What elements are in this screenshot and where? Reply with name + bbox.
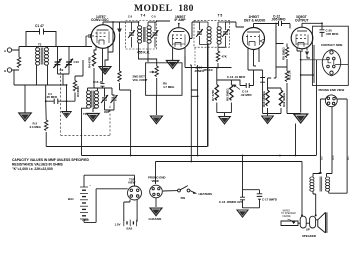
wire T4 leads — [132, 22, 156, 48]
svg-text:.005 MFD.: .005 MFD. — [326, 32, 340, 36]
ground T3 — [87, 114, 99, 122]
resistor R8 2MEG pot — [230, 85, 233, 101]
speaker horn — [316, 212, 327, 233]
svg-text:C-13 .01 MFD: C-13 .01 MFD — [227, 75, 245, 79]
svg-text:IF AMP: IF AMP — [175, 18, 187, 22]
svg-text:R9 1MEG: R9 1MEG — [282, 47, 286, 60]
ground chassis — [150, 208, 162, 216]
svg-text:C-16 .05MFD 3VC: C-16 .05MFD 3VC — [219, 200, 244, 204]
junction dots c4 — [45, 84, 68, 102]
transformer T2 primary — [36, 48, 40, 66]
svg-text:BLU: BLU — [348, 155, 350, 160]
resistor R11 3MEG — [279, 90, 282, 106]
T4 coil primary — [138, 26, 142, 44]
junction dot R12 — [295, 155, 297, 157]
wire mid cap loop — [191, 90, 197, 96]
wire plug bottom pin down — [327, 107, 333, 177]
T6 core — [320, 177, 322, 192]
transformer T2 secondary — [44, 48, 48, 66]
tube V1 14TE7 CONV OSC — [91, 25, 115, 49]
ground c4 — [62, 112, 72, 118]
battery BA2 — [124, 220, 137, 227]
svg-text:CHASSIS: CHASSIS — [149, 217, 162, 221]
volume control box — [146, 63, 182, 96]
wire rail Q — [82, 155, 317, 157]
wire under tube3 — [231, 26, 276, 114]
wire heaters — [163, 191, 194, 193]
capacitor C17 8MFD — [257, 194, 263, 199]
wire volume top — [139, 56, 157, 66]
wire tuning caps — [58, 47, 70, 86]
potentiometer R6 4.7MEG — [155, 66, 158, 77]
wire R12 bottom — [276, 67, 301, 156]
arrow heaters — [193, 191, 197, 194]
svg-text:−: − — [90, 184, 92, 188]
wire T2 leads — [37, 47, 48, 86]
svg-text:R10 10MEG: R10 10MEG — [262, 90, 266, 107]
resistor R5 — [118, 71, 121, 82]
svg-text:T6: T6 — [319, 171, 323, 175]
svg-text:R12 2K: R12 2K — [288, 69, 292, 80]
resistor 47K — [216, 51, 219, 62]
wire tube1 grid cap left — [86, 34, 94, 47]
svg-text:SP: SP — [306, 228, 310, 232]
variable capacitor C18 — [111, 95, 118, 103]
svg-text:C-17 8MFD: C-17 8MFD — [262, 197, 277, 201]
speaker magnet — [281, 221, 298, 226]
capacitor C1 47 — [26, 29, 56, 47]
arrow frame — [288, 219, 296, 224]
junction dots speaker — [301, 214, 317, 216]
ground C17 — [237, 210, 248, 217]
plug prong end view bottom — [150, 185, 163, 198]
svg-text:BA2: BA2 — [127, 227, 133, 231]
svg-text:C1 47: C1 47 — [35, 24, 44, 28]
svg-text:C-9: C-9 — [152, 16, 157, 19]
svg-text:.005 MFD: .005 MFD — [271, 18, 286, 22]
svg-text:VOL CONT: VOL CONT — [133, 78, 148, 82]
wire T3 leads — [82, 88, 103, 156]
svg-text:R8 2MEG: R8 2MEG — [226, 88, 230, 101]
variable capacitor C9 — [53, 59, 61, 68]
antenna terminal G — [7, 68, 11, 72]
wire 47K bottom — [206, 63, 232, 68]
ground antenna — [19, 113, 31, 121]
T4 trimmer 2 — [152, 30, 159, 38]
wire top rail to tube1 grid — [19, 46, 92, 48]
svg-text:VIEW: VIEW — [152, 179, 160, 183]
T3 core — [92, 91, 93, 108]
wire BA1 minus to plug top — [84, 175, 135, 187]
svg-text:VIEW: VIEW — [128, 181, 136, 185]
wire rail P — [46, 45, 208, 147]
wire osc cap loop — [98, 88, 115, 112]
variable capacitor C10 — [65, 59, 73, 68]
svg-text:DET & AUDIO: DET & AUDIO — [244, 18, 266, 22]
svg-text:PRONG END VIEW: PRONG END VIEW — [319, 88, 345, 92]
T6 secondary — [326, 177, 330, 191]
wire plug right pin down — [329, 99, 347, 193]
T5 coil primary — [207, 27, 211, 45]
wire tube4 cathode ground — [301, 45, 314, 113]
svg-text:455 KC: 455 KC — [203, 68, 214, 72]
svg-text:T2: T2 — [38, 43, 42, 47]
svg-text:C10: C10 — [74, 60, 80, 64]
svg-text:SPEAKER: SPEAKER — [302, 234, 317, 238]
wire plug bottom ground — [155, 198, 157, 207]
junction dot cathode — [300, 74, 302, 76]
svg-text:FRAME: FRAME — [283, 215, 292, 218]
svg-text:OUTPUT: OUTPUT — [295, 18, 309, 22]
wire C17 loop — [243, 156, 260, 209]
T3 secondary — [94, 91, 98, 109]
wire R2 to rail — [45, 101, 48, 146]
resistor R7 470K — [215, 85, 218, 101]
wire R10 R11 — [268, 78, 282, 116]
svg-text:+90V: +90V — [82, 218, 89, 222]
speaker voice coil — [298, 216, 316, 228]
svg-text:WIRES: WIRES — [283, 211, 291, 213]
wire T4 to tubes — [113, 21, 170, 62]
wire tube3 top — [236, 24, 276, 71]
wire C12 to tube4 — [276, 24, 290, 48]
junction dots mid — [130, 95, 199, 162]
T5 coil secondary — [217, 27, 221, 45]
capacitor C15 — [260, 78, 265, 83]
ground tube1 — [105, 52, 108, 66]
ground tube4 — [294, 114, 308, 123]
dashed T5 shield drop — [195, 48, 201, 68]
switch SW — [178, 186, 190, 192]
wire T6 bottom to speaker — [313, 191, 316, 216]
svg-text:.05MFD: .05MFD — [194, 69, 204, 73]
junction dot tube4 pin — [300, 59, 302, 61]
svg-text:RED: RED — [333, 155, 335, 160]
wire tube1 pins — [94, 22, 113, 81]
transformer T2 core — [41, 48, 43, 65]
resistor R12 — [285, 71, 288, 82]
wire R6 bottom ground — [155, 78, 157, 115]
svg-text:BA1: BA1 — [68, 197, 74, 201]
wire avc line — [120, 22, 131, 156]
svg-text:1.5V: 1.5V — [115, 222, 121, 226]
oscillator coil T3 primary — [87, 91, 91, 109]
resistor R2 3.3MEG — [45, 120, 48, 131]
junction dots T4 — [112, 21, 139, 23]
junction dot tube4 top — [321, 22, 323, 24]
variable capacitor C17 — [101, 95, 108, 103]
wire box bottom to rail — [316, 60, 318, 156]
resistor R9 1MEG — [285, 47, 288, 58]
svg-text:RESISTANCE VALUES IN OHMS: RESISTANCE VALUES IN OHMS — [12, 163, 64, 167]
wire socket taps — [301, 60, 349, 65]
T5 trimmer 2 — [222, 29, 229, 37]
svg-text:TO SPEAKER: TO SPEAKER — [281, 212, 296, 215]
svg-text:T 5: T 5 — [218, 14, 223, 18]
capacitor C20 .005MFD — [320, 30, 325, 37]
tube V2 1N5GT IF AMP — [168, 23, 190, 50]
svg-text:R3 6800: R3 6800 — [76, 86, 80, 97]
svg-text:T 4: T 4 — [141, 14, 146, 18]
wire R3 — [75, 60, 83, 101]
svg-text:.05 MFD: .05 MFD — [46, 95, 57, 99]
resistor R10 10MEG — [266, 90, 269, 106]
ground R6 — [150, 116, 162, 124]
arrow tube4 pin — [305, 52, 309, 56]
svg-text:3.3 MEG: 3.3 MEG — [30, 125, 42, 129]
capacitor C12 .005MFD — [276, 21, 290, 26]
wire c4 node — [46, 85, 75, 112]
svg-text:CONTACT SIDE: CONTACT SIDE — [321, 43, 343, 47]
battery BA1 — [80, 187, 88, 219]
junction dots rails — [242, 155, 281, 157]
battery plug housing box — [312, 26, 348, 85]
resistor R3 — [73, 81, 76, 92]
ground R7R8 — [219, 117, 231, 124]
wire antenna bottom bus — [14, 84, 67, 86]
wire R4 bottom — [92, 68, 94, 88]
wire antenna terminals — [12, 47, 19, 86]
wire R7 R8 loop — [217, 68, 232, 117]
wire tube4 pins — [297, 47, 307, 60]
plug top view — [128, 186, 142, 200]
svg-text:C9: C9 — [60, 68, 64, 72]
wire rail R — [156, 162, 303, 216]
wire T5 external — [208, 22, 236, 147]
dashed gang line — [61, 68, 110, 135]
resistor R4 — [92, 53, 95, 66]
T6 primary — [310, 177, 314, 191]
svg-text:.02 MFD: .02 MFD — [241, 93, 252, 97]
svg-text:R7 470K: R7 470K — [211, 89, 215, 101]
T4 trimmer 1 — [128, 30, 135, 38]
tube V4 3Q5GT OUTPUT — [291, 23, 313, 49]
wire BA1 plus to plug left — [84, 189, 128, 223]
arrow R8 wiper — [234, 85, 241, 90]
wire plug pins to BA2 — [124, 199, 137, 221]
wire terminal ground drop — [24, 85, 26, 113]
capacitor C16 inline — [240, 197, 245, 200]
capacitor C14 .01MFD — [240, 83, 254, 88]
tube V3 1H5GT DET AUDIO — [243, 24, 265, 50]
capacitor C4 .05MFD — [54, 99, 58, 105]
IF transformer T5 box — [194, 21, 230, 48]
resistor R1 — [17, 57, 20, 68]
svg-text:HEATERS: HEATERS — [199, 192, 213, 196]
svg-text:MODEL 180: MODEL 180 — [134, 3, 194, 14]
wire mid columns — [185, 56, 198, 162]
IF transformer T4 box — [126, 21, 157, 50]
wire tube4 top bus — [302, 23, 322, 29]
wire R9 bottom — [286, 59, 288, 71]
svg-text:R11 3MEG: R11 3MEG — [282, 92, 286, 107]
svg-text:CAPACITY VALUES IN MMF UNLESS: CAPACITY VALUES IN MMF UNLESS SPECIFIED — [12, 158, 89, 162]
junction dot 47K — [217, 67, 219, 69]
svg-text:R4 4700: R4 4700 — [88, 57, 92, 68]
T4 coil secondary — [147, 26, 151, 44]
svg-text:SW: SW — [181, 196, 186, 200]
wire plug left pin down — [313, 99, 326, 177]
socket contact side — [322, 50, 341, 76]
wire tube2 pins — [173, 22, 206, 68]
arrow AVC — [117, 29, 122, 34]
ground R10 — [262, 116, 274, 123]
svg-text:C-8: C-8 — [128, 16, 133, 19]
ground tube2 — [166, 61, 178, 69]
wire T5 leads — [200, 22, 226, 50]
svg-text:T3: T3 — [83, 112, 87, 116]
svg-text:4.7 MEG: 4.7 MEG — [163, 85, 175, 89]
T5 trimmer 1 — [196, 29, 203, 37]
svg-text:47K: 47K — [222, 55, 228, 59]
svg-text:BLK: BLK — [321, 155, 323, 160]
plug prong end top — [325, 95, 337, 107]
antenna terminal A — [7, 48, 11, 52]
svg-text:"K"=1,000 i.e. 22K=22,000: "K"=1,000 i.e. 22K=22,000 — [12, 167, 53, 171]
junction dot C12 — [275, 23, 277, 25]
